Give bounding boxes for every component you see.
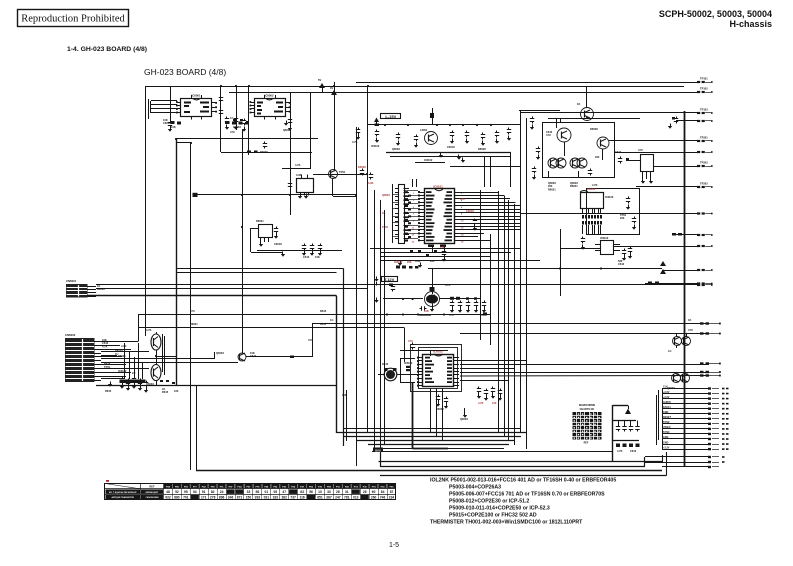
svg-text:GH-023 BOARD (4/8): GH-023 BOARD (4/8) [144,67,226,77]
wire bus nest3 [356,440,514,442]
svg-text:871: 871 [237,496,243,500]
wire y113 stub [521,112,697,114]
ic IC6102 [423,355,454,387]
transistor Q6302 [151,365,161,381]
svg-text:116: 116 [299,496,304,500]
wire pin line 12 [662,444,708,446]
resistor row below [160,380,163,382]
wire vertical x290 [290,92,292,215]
svg-text:1-5: 1-5 [389,542,399,549]
wire x385 vertical [384,210,386,445]
wire x380 vertical [380,200,382,441]
transistor Q6001 [329,170,338,179]
svg-text:0.1: 0.1 [668,349,672,353]
node dots top [220,85,222,87]
tick cluster left of IC6101 [405,191,408,193]
svg-text:100: 100 [342,393,347,397]
wire bundle x125-143 [124,343,126,379]
caps cluster 2 [438,395,440,397]
wire y285 long [96,284,697,286]
svg-text:Q6003: Q6003 [392,147,400,151]
ground IC6002 right [284,123,288,126]
wire heavy x684 [684,111,686,467]
svg-text:L6001: L6001 [420,128,428,132]
svg-text:RESET: RESET [663,416,672,419]
svg-text:100: 100 [174,389,179,393]
wire heavy drop x412 [412,382,414,449]
wire cn2 y359 [101,358,215,360]
svg-text:TP202: TP202 [700,161,708,165]
connector CN6002 [65,338,95,382]
svg-text:33: 33 [327,490,331,494]
svg-text:16: 16 [461,241,464,243]
svg-text:54: 54 [193,490,197,494]
svg-text:47U: 47U [308,338,313,342]
wire vertical x311 [310,92,312,168]
svg-text:33: 33 [247,490,251,494]
svg-text:260: 260 [371,496,377,500]
svg-text:3: 3 [413,200,415,202]
wire x511 down [510,153,512,187]
wire IC6001 left leads [151,100,177,102]
frame right block [543,123,615,178]
svg-text:BUS: BUS [375,448,381,452]
svg-text:651: 651 [317,496,323,500]
connector stub right d [700,371,704,373]
svg-text:8: 8 [461,214,463,216]
connector stub right b [700,332,704,334]
svg-text:13: 13 [412,234,415,236]
svg-text:7: 7 [413,214,415,216]
black cluster above Q6102 [396,266,400,269]
svg-text:3.3K: 3.3K [368,181,374,185]
connector stub y187 [697,186,700,188]
svg-text:IC6101: IC6101 [433,185,443,189]
capacitor C6007 [264,142,266,144]
svg-text:C6018: C6018 [163,121,171,125]
wire x480 vertical [480,190,482,340]
transistor pair Q6402 [672,374,681,383]
wire y213 long [521,213,697,215]
transistor pair Q6401 [673,337,682,346]
capacitor bar row [120,380,146,384]
wire y163 label [415,162,445,164]
wire bus riser a [374,437,376,449]
wire pin line 4 [662,403,708,405]
svg-text:234: 234 [389,496,395,500]
wire x196 riser [196,386,198,471]
svg-text:CN6001: CN6001 [66,279,77,283]
caps right column [532,117,534,119]
svg-text:REF: REF [149,484,155,488]
wire IC6102 left leads [400,358,415,360]
svg-text:R615: R615 [105,389,112,393]
wire bus x336 [336,296,338,433]
svg-text:47U: 47U [688,328,693,332]
connector stub right a [700,322,704,324]
capacitor C6108 [496,131,498,133]
svg-text:10: 10 [461,221,464,223]
svg-text:Reproduction Prohibited: Reproduction Prohibited [21,14,125,25]
wire IC6102 right y372 [460,372,709,374]
resistor array RA6101 [399,185,405,244]
svg-text:AUDIO: AUDIO [663,401,671,404]
connector stub right c [700,362,704,364]
wire y141 stub [609,140,697,142]
wire y356 stub [156,356,176,358]
frame right block2 [587,189,640,235]
wire heavy bottom y470 [196,470,662,472]
wire y125 main [367,124,520,126]
wire vertical x236 [236,86,238,130]
connector stub P102 [697,91,700,93]
svg-text:100: 100 [492,401,497,405]
svg-text:10: 10 [318,490,322,494]
transistor Q6202 [557,128,571,142]
capacitor C6103 [398,133,400,135]
svg-text:C612: C612 [618,262,625,266]
wire y451 long [372,451,613,453]
op-amp IC6001 [181,99,212,117]
svg-text:CANCBOGMN: CANCBOGMN [146,496,159,499]
wire y260 [380,260,540,262]
wire y143 corner [176,142,191,144]
svg-text:Q6003: Q6003 [382,193,390,197]
capacitor C6210 [676,117,678,119]
svg-text:C6018: C6018 [274,242,282,246]
power flag VCC1 [319,83,325,88]
wire pin line 14 [645,456,708,458]
capacitor C6002 [220,96,222,98]
svg-text:C6018: C6018 [466,209,474,213]
wire bus nest1 [336,432,526,434]
wire left of array verticals [412,179,414,187]
wire x490b vertical [490,234,492,345]
capacitor C6003 [226,117,228,119]
svg-text:47U: 47U [190,309,195,313]
wire y166 [450,166,521,168]
svg-text:880: 880 [174,496,180,500]
svg-text:REFBNJQRST: REFBNJQRST [146,492,160,494]
transistor Q6201 [581,108,594,121]
svg-text:91: 91 [202,490,206,494]
wire y268 bus [176,268,344,270]
connector stub right e [700,374,704,376]
svg-text:9: 9 [413,221,415,223]
svg-text:220: 220 [620,216,625,220]
svg-text:0.1: 0.1 [330,318,334,322]
wire x356 vertical [356,127,358,466]
svg-text:47: 47 [282,490,286,494]
svg-text:TP203: TP203 [700,182,708,186]
diode D6102 [430,287,435,291]
wire cn2 y355 [101,355,117,357]
svg-text:P5009-010-011-014+COP2E50 or I: P5009-010-011-014+COP2E50 or ICP-52.3 [449,506,550,512]
svg-text:L-15V: L-15V [385,114,396,119]
wire top bus y86 [145,86,684,88]
svg-text:SYNC: SYNC [663,431,670,434]
svg-text:R6021: R6021 [548,187,556,191]
svg-text:52: 52 [175,490,179,494]
junction marks mid [225,121,230,124]
svg-text:4.7K: 4.7K [146,328,152,332]
svg-text:4.7K: 4.7K [121,344,127,348]
wire y327 [138,327,404,329]
svg-text:P5008-012+COP2E30 or ICP-51.2: P5008-012+COP2E30 or ICP-51.2 [449,499,529,505]
svg-text:2: 2 [461,193,463,195]
svg-text:REF: REF [584,442,589,445]
svg-text:+3.3V: +3.3V [663,391,670,394]
svg-text:ANTIQUE TRANSISTOR: ANTIQUE TRANSISTOR [111,496,134,499]
svg-text:701: 701 [183,496,189,500]
wire x138 riser [138,315,140,342]
wire y250 sub [257,250,342,252]
power flag VCC2 [331,90,337,95]
capacitor C6106 [466,131,468,133]
svg-text:IC6102: IC6102 [404,361,413,365]
wire IC6101 right leads [459,192,499,194]
svg-text:GND: GND [663,441,669,444]
wire below IC y252 [380,252,511,254]
svg-text:IC6102: IC6102 [600,236,609,240]
svg-text:10K: 10K [315,255,320,259]
wire x514 riser [514,204,516,445]
wire y363 stub [459,360,490,362]
connector CN6001 [66,284,88,298]
capacitor C6201 [620,157,622,159]
svg-text:47U: 47U [638,148,643,152]
svg-text:896: 896 [219,496,225,500]
svg-text:95: 95 [184,490,188,494]
wire IC6201 left [626,160,640,162]
wire bus nest2 [344,436,521,438]
wire IC6102 right y364 [460,364,709,366]
svg-text:6: 6 [461,207,463,209]
connector stub y166 [697,165,700,167]
svg-text:1-4. GH-023 BOARD (4/8): 1-4. GH-023 BOARD (4/8) [67,46,147,53]
svg-text:CN6002: CN6002 [65,333,76,337]
svg-text:4.7K: 4.7K [592,183,598,187]
svg-text:R615: R615 [162,390,169,394]
svg-text:393: 393 [255,496,261,500]
wire bus x343 [343,269,345,447]
svg-text:247: 247 [335,496,341,500]
wire y152 stub [615,152,697,154]
wire pin line 7 [662,418,708,420]
svg-text:382: 382 [281,496,287,500]
transistor Q6301 [151,334,161,350]
caps array bottom right [612,405,614,461]
regulator IC6005 [297,179,314,193]
connector stub y213 [697,212,700,214]
svg-text:278: 278 [210,496,216,500]
wire y268 right piece [428,268,662,270]
capacitor C6102 [376,130,378,132]
wire vertical x249 [248,86,250,155]
capacitor C6110 [474,219,476,221]
wire IC6102 right y368 [460,368,514,370]
svg-text:H-chassis: H-chassis [729,19,772,29]
black mark pair [406,366,410,368]
svg-text:TP101: TP101 [700,77,708,81]
wire y121 stub [676,120,697,122]
wire pin line 13 [662,449,708,451]
wire y248 left [560,248,601,250]
svg-text:CLK: CLK [663,386,668,389]
ground q6102 [430,309,434,312]
wire x312 stub [312,324,314,358]
wire x504 riser [504,196,506,437]
wire cn2 y372 [101,372,131,374]
svg-text:IC6102: IC6102 [424,158,433,162]
connector stub y283 [697,282,700,284]
op-amp IC6002 [255,99,286,117]
wire bottom y466 [380,466,645,468]
power flags right [660,261,666,266]
svg-text:5V: 5V [318,78,321,82]
transistor Q6203 [597,137,609,149]
svg-text:64: 64 [381,490,385,494]
wire x509 riser [508,200,510,441]
transistor pair Q6204 [548,158,558,168]
wire y270 stub [662,270,697,272]
wire q630x verticals [156,350,158,365]
wire vertical x334 [334,82,336,170]
wire x526 riser [526,213,528,449]
wire cn2 y362 [101,362,238,364]
svg-text:47U: 47U [460,197,465,201]
wire cn2 y345 [101,345,120,347]
wire nest y429 [344,428,521,430]
svg-text:48: 48 [166,490,170,494]
wire x367 vertical long [367,86,369,433]
wire x490 down [490,156,492,187]
svg-text:1: 1 [413,193,415,195]
svg-text:IC6002: IC6002 [264,94,273,98]
connector stub y152 [697,151,700,153]
svg-text:1K: 1K [688,318,691,322]
svg-text:63: 63 [300,490,304,494]
wire heavy vertical x176 [176,139,178,386]
wire heavy y296 [87,295,337,297]
wire y152 [221,152,312,154]
svg-text:171: 171 [201,496,207,500]
wire y461 long [379,461,664,463]
connector stub y246 [697,245,700,247]
svg-text:47U: 47U [408,339,413,343]
svg-text:GND: GND [663,411,669,414]
svg-text:31: 31 [345,490,349,494]
svg-text:C6018: C6018 [447,145,455,149]
svg-text:26: 26 [336,490,340,494]
wire top bus y82 [356,82,697,84]
wire bus y196 [195,194,357,196]
svg-text:D6008: D6008 [478,147,486,151]
svg-text:C612: C612 [250,354,257,358]
svg-text:IC6102: IC6102 [605,195,614,199]
wire IC6102 bottom drops [430,388,432,433]
svg-text:220: 220 [407,260,412,264]
wire q6201 top [586,86,588,108]
svg-text:R6021: R6021 [190,322,198,326]
wire y111 frame top [519,110,560,112]
capacitor C6001 [170,121,172,123]
wire y153 heavy [386,152,511,154]
wire y235 stub [672,234,697,236]
red mark table [106,480,109,482]
svg-text:220: 220 [595,155,600,159]
power label N-15V [381,114,401,119]
wire y323 stub [312,323,709,325]
wire pin line 5 [662,408,708,410]
transistor pair Q6205 [570,158,580,168]
caps IC6203 [624,249,626,251]
reproduction prohibited box [18,10,129,27]
resistor R6001 [233,119,236,121]
wire y283 stub [645,283,697,285]
ground stub center [463,415,467,418]
wire bus nest5 [375,448,504,450]
svg-text:THERMISTER TH001-002-003+Win1S: THERMISTER TH001-002-003+Win1SMDC100 or … [430,520,583,526]
svg-text:TP103: TP103 [700,108,708,112]
connector stub y270 [697,269,700,271]
capacitor C6101 [358,128,360,130]
caps cluster right of IC6102 [478,387,480,389]
svg-text:031: 031 [264,496,270,500]
wire heavy y385 [96,385,336,387]
wire vertical x242 [242,130,244,353]
wire q6001 down [332,179,334,197]
wire pin line 16 [662,466,708,468]
svg-text:DATA4: DATA4 [663,406,671,409]
svg-text:387: 387 [326,496,332,500]
svg-text:R6021: R6021 [256,219,264,223]
svg-text:TP201: TP201 [700,136,708,140]
svg-text:3V: 3V [330,86,333,90]
svg-text:IC6001: IC6001 [191,94,200,98]
ground cn area [108,384,112,387]
svg-text:47U: 47U [230,130,235,134]
wire vertical x170 [170,86,172,122]
label near bus [373,448,383,453]
resistor cluster below IC [410,250,413,252]
capacitor C6005 [244,119,246,121]
svg-text:932: 932 [165,496,171,500]
svg-text:C612: C612 [630,449,637,453]
svg-text:TP61: TP61 [339,170,346,174]
capacitor row CN area [122,377,124,379]
svg-text:IC6102: IC6102 [394,260,403,264]
svg-text:3.3K: 3.3K [296,173,302,177]
wire cn2 y376 [101,376,126,378]
wire vertical x221 [220,86,222,152]
svg-text:4.7K: 4.7K [617,449,623,453]
wire left frame vertical x145 [145,86,147,336]
wire cn2 y349 [101,349,131,351]
capacitor C6004 [236,117,238,119]
svg-text:60: 60 [372,490,376,494]
svg-text:+3.3V: +3.3V [663,396,670,399]
wire pin line 1 [662,388,708,390]
node dots y125 [376,124,378,126]
wire x484 down [484,156,486,187]
wire y333 stub [460,333,709,335]
svg-text:R615: R615 [320,309,327,313]
svg-text:P5005-006-007+FCC16 701 AD or: P5005-006-007+FCC16 701 AD or TF16SN 0.7… [449,492,605,498]
svg-text:346: 346 [228,496,234,500]
svg-text:4.7K: 4.7K [295,163,301,167]
wire right block internals [556,118,558,128]
